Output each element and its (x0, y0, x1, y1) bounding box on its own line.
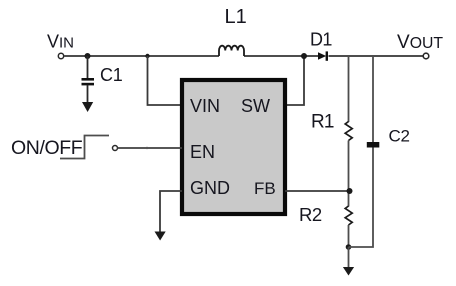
svg-text:VIN: VIN (190, 96, 220, 116)
ground GND pin (155, 232, 166, 241)
wire R1 top lead (348, 56, 350, 122)
output terminal VOUT (423, 53, 429, 59)
resistor R1 (345, 122, 352, 141)
IC U1 body (182, 80, 285, 214)
wire top rail right segment (329, 55, 424, 57)
svg-text:C1: C1 (100, 65, 123, 85)
junction output ground node (346, 244, 352, 250)
wire EN input to EN pin (118, 147, 183, 149)
terminal EN input (113, 146, 118, 151)
wire C2 top lead (372, 56, 374, 143)
wire R2 bottom lead (348, 225, 350, 247)
diode D1 (318, 51, 328, 60)
wire top rail middle segment (244, 55, 318, 57)
svg-text:R1: R1 (311, 112, 334, 133)
junction SW node (301, 53, 307, 59)
svg-text:R2: R2 (299, 204, 322, 225)
svg-text:VIN: VIN (47, 32, 74, 52)
wire FB pin to divider (285, 190, 349, 192)
wire R1 to FB node (348, 141, 350, 207)
svg-text:ON/OFF: ON/OFF (11, 137, 83, 159)
ground C1 (82, 102, 93, 112)
wire C1 top lead (87, 56, 89, 79)
svg-text:VOUT: VOUT (397, 32, 443, 53)
junction C1 node (85, 53, 91, 59)
logic step symbol (60, 136, 109, 159)
capacitor C2 (367, 142, 380, 148)
wire GND pin to ground (160, 191, 182, 232)
inductor L1 (219, 46, 244, 56)
svg-text:GND: GND (190, 178, 230, 198)
junction FB node (347, 188, 353, 194)
wire top rail left segment (64, 55, 219, 57)
svg-text:L1: L1 (225, 6, 247, 28)
junction artifact on EN wire (146, 147, 148, 149)
ground output (343, 267, 354, 276)
resistor R2 (345, 206, 352, 225)
wire to VIN pin (148, 56, 182, 105)
wire C1 bottom lead (87, 85, 89, 103)
wire C2 bottom lead (349, 148, 374, 248)
svg-text:EN: EN (190, 142, 215, 162)
svg-text:FB: FB (254, 179, 276, 198)
svg-text:D1: D1 (310, 29, 332, 49)
input terminal VIN (58, 53, 63, 58)
svg-text:C2: C2 (389, 127, 410, 146)
capacitor C1 (82, 78, 95, 85)
svg-text:SW: SW (241, 96, 270, 116)
wire SW pin to top rail (287, 57, 304, 105)
wire ground stem (348, 247, 350, 268)
junction VIN-pin branch (145, 54, 149, 58)
